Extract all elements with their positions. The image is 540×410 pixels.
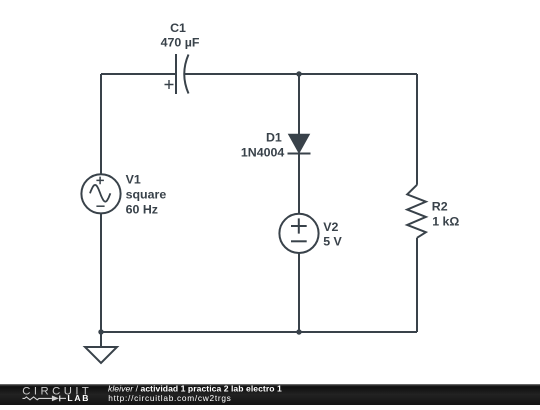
svg-text:60 Hz: 60 Hz <box>126 202 158 216</box>
svg-text:V1: V1 <box>126 173 141 187</box>
svg-text:R2: R2 <box>432 200 448 214</box>
svg-text:D1: D1 <box>266 131 282 145</box>
svg-text:http://circuitlab.com/cw2trgs: http://circuitlab.com/cw2trgs <box>108 393 231 403</box>
svg-text:C1: C1 <box>170 21 186 35</box>
svg-text:LAB: LAB <box>67 393 90 403</box>
svg-text:5 V: 5 V <box>323 234 342 248</box>
svg-text:1 kΩ: 1 kΩ <box>432 214 459 228</box>
svg-text:470 µF: 470 µF <box>161 36 200 50</box>
svg-text:1N4004: 1N4004 <box>241 146 285 160</box>
svg-text:square: square <box>126 187 167 201</box>
svg-text:V2: V2 <box>323 220 338 234</box>
